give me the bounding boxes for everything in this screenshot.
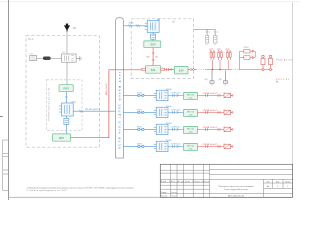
frame bottom border bbox=[9, 196, 293, 198]
SIM block bbox=[151, 34, 156, 39]
svg-text:Листов: Листов bbox=[285, 181, 290, 183]
speaker device 2 bbox=[214, 29, 216, 35]
speaker device 1 bbox=[206, 29, 208, 35]
svg-text:БРП: БРП bbox=[59, 137, 64, 140]
GSM module A1-1 bbox=[147, 21, 159, 33]
svg-text:Лист: Лист bbox=[276, 181, 280, 183]
svg-text:Лит: Лит bbox=[267, 181, 270, 183]
wire БИП to БЗК red bbox=[152, 48, 154, 66]
svg-text:ВВГнг 3х1,5: ВВГнг 3х1,5 bbox=[106, 83, 108, 95]
wire battery to БРП bbox=[65, 124, 67, 133]
green box БЗЛ bbox=[174, 66, 188, 74]
svg-text:АПС.2020-ПС.Э5: АПС.2020-ПС.Э5 bbox=[228, 195, 245, 198]
connector box XT1 bbox=[30, 56, 37, 61]
svg-text:1. Извещатели пожарные дымовые: 1. Извещатели пожарные дымовые установит… bbox=[27, 187, 134, 189]
frame top border bbox=[0, 1, 300, 3]
svg-text:1: 1 bbox=[287, 186, 288, 188]
beacon post 2 bbox=[269, 55, 273, 70]
wire БЗК to БЗЛ bbox=[164, 69, 174, 71]
antenna W1 bbox=[64, 24, 70, 32]
frame centering mark bbox=[0, 116, 3, 118]
feedline wire bbox=[66, 32, 68, 85]
left margin stamp column bbox=[3, 140, 9, 190]
svg-text:гр2: гр2 bbox=[213, 44, 215, 46]
svg-text:ОПОП: ОПОП bbox=[244, 47, 250, 49]
svg-text:C2000: C2000 bbox=[71, 101, 77, 103]
detector loop row 1 bbox=[124, 89, 234, 101]
controller module U1 bbox=[62, 103, 74, 116]
battery symbol GB1 bbox=[64, 118, 69, 124]
block А1 dashed enclosure bbox=[131, 19, 193, 79]
call point riser pair 2 bbox=[218, 51, 223, 71]
frame right border bbox=[292, 2, 294, 197]
svg-text:Бл.4: Бл.4 bbox=[28, 38, 34, 41]
riser bus КСПВ bbox=[116, 18, 124, 159]
manual point drop 1 bbox=[211, 70, 213, 81]
red siren bus bbox=[196, 69, 206, 71]
inner dashed enclosure ППКОП bbox=[46, 80, 82, 131]
detector loop row 2 bbox=[124, 106, 234, 118]
power green box РИП bbox=[59, 85, 73, 92]
svg-text:Петров: Петров bbox=[171, 196, 177, 198]
svg-text:Н.контр.: Н.контр. bbox=[161, 196, 168, 198]
svg-text:XW1: XW1 bbox=[30, 54, 34, 56]
detector loop row 4 bbox=[124, 140, 234, 152]
wire PCN red bbox=[71, 70, 143, 138]
surge arrester box bbox=[62, 54, 77, 62]
svg-text:гр1: гр1 bbox=[205, 44, 207, 46]
wire bus to GSM module bbox=[124, 25, 148, 27]
svg-text:2: 2 bbox=[217, 32, 218, 34]
manual point drop 2 bbox=[225, 70, 227, 81]
call point riser pair 1 bbox=[210, 51, 215, 71]
ferrite filter bbox=[43, 57, 50, 60]
green box БЗК bbox=[146, 66, 161, 74]
block Бл.4 dashed enclosure bbox=[26, 36, 100, 148]
svg-text:КСПВ 4х0,5 (ДПЛС шлейф дплс): КСПВ 4х0,5 (ДПЛС шлейф дплс) bbox=[119, 69, 122, 148]
siren branch pair bbox=[240, 50, 256, 70]
svg-text:БЗЛ: БЗЛ bbox=[179, 70, 184, 73]
speaker line black bbox=[194, 28, 216, 30]
svg-text:1: 1 bbox=[209, 32, 210, 34]
svg-text:Ач: Ач bbox=[267, 185, 269, 188]
svg-text:RS-485 (ДПЛС): RS-485 (ДПЛС) bbox=[85, 109, 100, 111]
ground stub bbox=[79, 56, 81, 60]
detector loop row 3 bbox=[124, 123, 234, 135]
frame left border bbox=[8, 0, 10, 200]
wire РИП to module bbox=[65, 92, 67, 103]
svg-text:пп1: пп1 bbox=[210, 85, 213, 87]
svg-text:КСПВ: КСПВ bbox=[129, 22, 135, 24]
green box БИП bbox=[144, 41, 161, 48]
wire SIM to БИП bbox=[152, 39, 154, 41]
wire БЗЛ out with connector bbox=[188, 69, 196, 71]
wire module to battery bbox=[65, 116, 67, 118]
title block right grid bbox=[210, 170, 293, 198]
svg-text:пп2: пп2 bbox=[224, 85, 227, 87]
svg-text:ППКОП Сигнал-10 исп.01: ППКОП Сигнал-10 исп.01 bbox=[48, 87, 50, 121]
left pin БЗК bbox=[142, 68, 146, 71]
svg-text:БИП: БИП bbox=[151, 44, 156, 47]
svg-text:2. Кабели прокладывать по ГОСТ: 2. Кабели прокладывать по ГОСТ bbox=[27, 190, 68, 192]
svg-text:Схема соединений внешних: Схема соединений внешних bbox=[224, 188, 248, 191]
svg-text:Пожарная охранная сигнализация: Пожарная охранная сигнализация bbox=[219, 186, 254, 188]
svg-text:Иванов: Иванов bbox=[171, 192, 177, 194]
svg-text:Изм. Лист № докум. Подп. Дата: Изм. Лист № докум. Подп. Дата bbox=[161, 180, 210, 183]
right pin БЗК bbox=[161, 68, 165, 71]
title block outline bbox=[160, 164, 292, 197]
title block left grid bbox=[160, 164, 209, 197]
wire module to SIM block bbox=[152, 32, 154, 34]
svg-text:РИП: РИП bbox=[63, 88, 68, 91]
wire stub right of arrester bbox=[76, 58, 80, 60]
power green box БРП bbox=[53, 134, 71, 141]
beacon post 1 bbox=[261, 55, 265, 70]
wire surge row bbox=[37, 58, 62, 60]
svg-text:БЗК: БЗК bbox=[151, 69, 156, 72]
wire RS-485 bbox=[73, 110, 115, 112]
svg-text:Разраб.: Разраб. bbox=[161, 192, 168, 194]
svg-text:1: 1 bbox=[277, 186, 278, 188]
call point riser pair 3 bbox=[227, 51, 232, 70]
svg-text:ПКВ-ВЗ/30: ПКВ-ВЗ/30 bbox=[276, 59, 293, 61]
